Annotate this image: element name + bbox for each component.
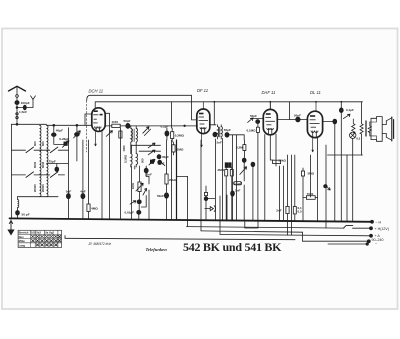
capacitor 50pF T2 <box>225 133 229 138</box>
svg-text:– H: – H <box>376 220 382 224</box>
wire vertical x236.5 <box>236 135 238 221</box>
capacitor 75pF <box>55 167 59 172</box>
node trimmer junction <box>53 124 55 126</box>
resistor 2MOhm vertical <box>173 142 175 155</box>
svg-text:6000: 6000 <box>33 161 37 168</box>
capacitor pair DF out <box>205 192 208 195</box>
capacitor 50pF left bottom <box>16 211 20 216</box>
output transformer secondary <box>368 122 371 136</box>
capacitor blob DL right <box>333 119 337 124</box>
rail A feeder long thin <box>65 238 295 239</box>
rail labels <box>372 220 389 245</box>
wire vertical x347 <box>346 155 348 222</box>
trimmer C 6-26pF <box>64 142 67 145</box>
resistor 20kOhm <box>166 140 168 192</box>
transformer T1b secondary <box>136 154 137 165</box>
switch mark x326 <box>324 185 327 188</box>
ground symbol arrow <box>8 220 14 235</box>
wire vertical x171.5 <box>171 102 173 219</box>
svg-text:50 pF: 50 pF <box>22 212 30 216</box>
capacitor 2nF right <box>287 155 289 235</box>
svg-text:7000: 7000 <box>307 192 314 196</box>
svg-text:1,5nF: 1,5nF <box>19 110 27 114</box>
tube DL11 <box>307 111 322 137</box>
switch S2a <box>12 174 47 176</box>
rail3 +A <box>220 234 371 235</box>
svg-text:75pF: 75pF <box>49 159 56 163</box>
main ground bus <box>10 218 373 221</box>
svg-text:2MΩ: 2MΩ <box>218 168 225 172</box>
wire left rail <box>11 124 13 218</box>
rail2 +H with switch <box>187 227 372 229</box>
wire drop x270 DAF plate <box>269 102 271 110</box>
potentiometer arrow detector <box>240 167 247 175</box>
capacitor 50nF <box>158 160 162 164</box>
wire vertical x227 <box>226 195 228 221</box>
wire vertical x291.5 <box>291 155 293 235</box>
resistor 1,5k vertical <box>119 131 122 138</box>
svg-text:50nF: 50nF <box>157 194 164 198</box>
wire DCH right upper <box>105 112 109 114</box>
capacitor blob 50pF det <box>251 162 255 167</box>
wire left grid into DCH11 <box>85 113 92 115</box>
svg-text:20000: 20000 <box>41 184 45 192</box>
wire vertical x341 heater <box>340 102 342 222</box>
wire vertical x120.4 <box>119 128 121 219</box>
wire phone tap bar <box>205 197 215 199</box>
transformer T1 secondary coil <box>136 128 137 142</box>
wire vertical x283.5 <box>283 166 285 221</box>
output transformer primary <box>361 102 363 124</box>
wire vertical x232.5 <box>232 135 234 221</box>
contact pair dark <box>225 163 228 168</box>
svg-text:0,1μF: 0,1μF <box>161 125 169 129</box>
pot wiper arrow <box>130 201 136 205</box>
phone jack symbol <box>205 207 214 211</box>
cluster resistor R vertical a <box>225 168 227 222</box>
svg-text:2MΩ: 2MΩ <box>177 147 184 151</box>
capacitor 40pF trimmer branch <box>53 125 55 144</box>
wire W2 screen top rail <box>95 102 362 108</box>
speaker frame <box>371 117 382 142</box>
coil L3 500 <box>17 197 19 200</box>
svg-text:30pF: 30pF <box>162 155 169 159</box>
tube DCH11 <box>92 108 105 132</box>
capacitor 25nF <box>146 166 149 177</box>
capacitor 2nF T2 <box>213 132 217 137</box>
terminal circles feed <box>16 113 18 115</box>
capacitor 5nF <box>66 194 70 199</box>
coil L2 tuning <box>47 125 49 197</box>
svg-text:Duo: Duo <box>19 235 25 239</box>
wire vertical x82.5 <box>82 140 84 219</box>
tube DF11 top lead <box>202 102 204 109</box>
wire vertical x201 to rail3a <box>200 140 202 231</box>
svg-text:Bereich: Bereich <box>19 231 29 235</box>
resistor 7000 <box>306 196 315 200</box>
labels DAF DL area <box>234 108 361 213</box>
wire tuning block to DCH11 <box>47 114 93 125</box>
svg-text:50nF: 50nF <box>158 162 165 166</box>
rheostat zigzag <box>352 119 355 133</box>
wire drop x289.6 <box>289 102 291 120</box>
trimmer arrow DAF grid <box>248 118 253 122</box>
svg-text:5MΩ: 5MΩ <box>308 172 315 176</box>
trimmer square mid <box>150 160 153 163</box>
svg-text:0,1μF: 0,1μF <box>346 108 354 112</box>
svg-text:50pF: 50pF <box>224 128 231 132</box>
antenna symbol <box>9 86 26 91</box>
svg-text:20000: 20000 <box>33 184 37 192</box>
wire T1b left leg <box>131 145 133 153</box>
transformer T1 core <box>133 129 134 142</box>
potentiometer 1MOhm <box>139 166 141 182</box>
detour U below bus <box>245 221 258 228</box>
svg-text:600: 600 <box>41 141 45 146</box>
resistor 4MOhm <box>88 140 90 219</box>
tube DF11 <box>197 109 210 134</box>
capacitor 0,1uF screen <box>166 128 168 140</box>
wire drop x214.3 from W2 <box>213 102 215 125</box>
capacitor 50pF coupling <box>126 123 130 128</box>
svg-text:100-2x3: 100-2x3 <box>31 231 41 235</box>
svg-text:40pF: 40pF <box>56 129 63 133</box>
svg-text:1150: 1150 <box>112 120 119 124</box>
svg-text:500: 500 <box>141 158 145 163</box>
node W2 junctions <box>213 101 215 103</box>
wire vertical x102 DCH cathode <box>101 131 103 219</box>
switch S1b <box>47 149 69 151</box>
svg-text:1000: 1000 <box>122 145 126 151</box>
svg-text:Ua Ug2: Ua Ug2 <box>45 231 55 235</box>
svg-text:+ H(12V): + H(12V) <box>375 227 389 231</box>
wire DAF grid <box>251 118 263 120</box>
wire vertical x310.5 <box>310 155 312 197</box>
wire vertical x220 <box>219 196 221 234</box>
rail4 mains <box>303 240 369 242</box>
svg-text:0,01μF: 0,01μF <box>125 210 135 214</box>
switch S1a <box>12 149 47 151</box>
node antenna junction <box>16 107 18 109</box>
wire vertical x176.5 heavy <box>176 140 178 220</box>
svg-text:50pF: 50pF <box>250 114 257 118</box>
svg-text:1MΩ: 1MΩ <box>131 182 135 189</box>
capacitor blob detector <box>242 158 246 162</box>
wire DAF to DL coupling <box>277 119 307 121</box>
tube DF11 pin lead <box>201 134 203 147</box>
resistor 0,15MOhm vertical <box>134 166 136 169</box>
svg-text:0,1MΩ: 0,1MΩ <box>124 154 128 163</box>
resistor horizontal AVC <box>234 182 242 185</box>
speaker cone <box>382 121 386 137</box>
tube DCH11 pin lead <box>95 132 97 147</box>
svg-text:0,5: 0,5 <box>298 209 303 213</box>
antenna terminal circle <box>16 95 19 98</box>
capacitor 0,1uF block <box>293 207 296 214</box>
svg-text:DF 11: DF 11 <box>197 88 208 93</box>
capacitor 50pF coupling DAF-DL <box>296 117 300 122</box>
second aerial fork <box>31 96 36 100</box>
capacitor 1,5nF branch <box>23 105 26 110</box>
wire W1 oscillator top run <box>87 95 197 120</box>
svg-text:50pF: 50pF <box>294 114 301 118</box>
tube name labels <box>89 88 321 95</box>
table X marks <box>31 235 61 246</box>
bus end dot <box>371 220 374 223</box>
svg-text:1nF: 1nF <box>235 189 241 193</box>
coil L1 tuning <box>40 125 42 197</box>
wire coil bottoms <box>18 196 59 198</box>
wire DAF pins down <box>265 134 276 221</box>
wire vertical x326 <box>325 145 327 228</box>
transformer T1b primary <box>131 154 132 165</box>
svg-text:5nF: 5nF <box>66 190 72 194</box>
wire T2 verticals <box>210 124 216 126</box>
left block top wire <box>12 123 47 125</box>
svg-text:6-26pF: 6-26pF <box>59 137 69 141</box>
capacitor 30pF <box>157 155 161 159</box>
wire bottom DL region <box>328 154 363 156</box>
rail4 feeder vertical <box>302 232 304 241</box>
capacitor 0,1uF AF <box>137 200 141 204</box>
tube DL11 top lead <box>315 102 317 111</box>
svg-text:100pF: 100pF <box>21 101 30 105</box>
resistor 50kOhm horizontal <box>273 160 281 163</box>
tube DL11 pin lead <box>312 138 314 152</box>
svg-text:~: ~ <box>375 242 377 246</box>
transformer T1 primary coil <box>131 128 132 142</box>
labels left block <box>19 101 98 216</box>
node feed junction <box>16 123 18 125</box>
svg-text:DL 11: DL 11 <box>310 90 321 95</box>
svg-text:6,3: 6,3 <box>356 137 360 141</box>
svg-text:0,3MΩ: 0,3MΩ <box>175 134 185 138</box>
capacitor 50nF bottom <box>164 193 168 198</box>
wire trimmer row <box>54 143 67 145</box>
svg-text:2nF: 2nF <box>276 208 282 212</box>
rail4 mains second wire <box>328 243 367 245</box>
capacitor 100pF antenna series <box>15 101 19 105</box>
switch blades mid band <box>148 143 155 148</box>
svg-text:50kΩ: 50kΩ <box>279 159 287 163</box>
switch tone <box>343 114 350 118</box>
switch S2b <box>47 174 65 176</box>
svg-text:Zf: 468/472 kHz: Zf: 468/472 kHz <box>88 242 112 246</box>
capacitor 1nF <box>231 191 235 196</box>
svg-text:0,2M: 0,2M <box>236 146 243 150</box>
capacitor blob DAF grid <box>256 120 260 124</box>
resistor 0,3MOhm vertical <box>171 128 173 142</box>
trimmer arrow top right <box>75 133 80 137</box>
svg-text:6000: 6000 <box>41 161 45 168</box>
capacitor 0,1uF heater <box>339 108 343 113</box>
trimmer arrow on x109 <box>106 131 112 137</box>
wire mid right verticals <box>67 128 69 219</box>
svg-text:50pF: 50pF <box>124 119 131 123</box>
resistor 0,1MOhm DAF <box>257 124 259 222</box>
wire vertical x222.5 <box>222 138 224 220</box>
capacitor 0,2M outlined <box>243 140 245 158</box>
wire vertical x279.5 <box>279 166 281 221</box>
wire antenna branch <box>17 100 33 108</box>
svg-text:600: 600 <box>33 141 37 146</box>
svg-text:4MΩ: 4MΩ <box>91 207 98 211</box>
svg-text:2nF: 2nF <box>217 141 223 145</box>
wire vertical x186.5 to rail2 <box>177 176 188 226</box>
svg-text:Telefunken: Telefunken <box>146 247 168 252</box>
wire vertical x215.5 <box>215 139 217 220</box>
switch blade wave <box>143 188 147 195</box>
tube DAF11 <box>263 109 277 134</box>
resistor U150 <box>112 124 120 127</box>
labels mid section <box>112 119 244 215</box>
svg-text:542 BK und 541 BK: 542 BK und 541 BK <box>183 240 282 254</box>
output transformer core <box>365 121 366 137</box>
capacitor 4nF <box>81 194 85 199</box>
svg-text:20kΩ: 20kΩ <box>169 178 177 182</box>
svg-text:DCH 11: DCH 11 <box>89 89 104 94</box>
svg-text:Mitte: Mitte <box>19 239 26 243</box>
svg-text:0,1μF: 0,1μF <box>234 182 242 186</box>
shield dashed line <box>86 101 88 153</box>
tube DAF11 top lead <box>269 102 271 110</box>
transformer T2 secondary <box>221 127 222 137</box>
wire DL plate right <box>323 121 333 123</box>
svg-text:90–240: 90–240 <box>372 238 384 242</box>
svg-text:25nF: 25nF <box>145 173 152 177</box>
wire vertical x206 <box>205 186 207 221</box>
rail3a feeder <box>201 231 303 232</box>
svg-text:4nF: 4nF <box>80 190 86 194</box>
wire DCH11 right plate <box>105 125 112 127</box>
wire vertical x317.5 DL pin <box>317 138 319 222</box>
svg-text:DAF 11: DAF 11 <box>262 90 276 95</box>
wire vertical x109.4 <box>108 113 110 218</box>
trimmer arrows T1 <box>143 127 149 133</box>
voltage table <box>18 230 62 247</box>
TUBES <box>92 102 323 152</box>
lamp 6,3V <box>350 132 356 138</box>
resistor 3MOhm right <box>302 168 304 221</box>
wire vertical x149 <box>148 177 150 219</box>
wire 75pF row <box>47 164 69 168</box>
svg-text:0,1MΩ: 0,1MΩ <box>247 129 257 133</box>
transformer T2 primary <box>218 127 219 137</box>
svg-text:Lang: Lang <box>19 243 26 247</box>
cluster resistor R vertical b <box>231 168 233 222</box>
